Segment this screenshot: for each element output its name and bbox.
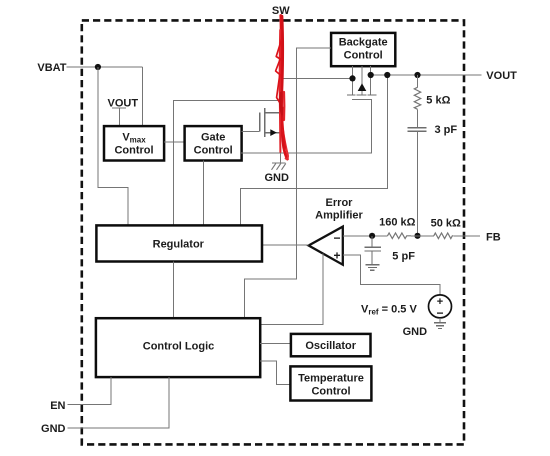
box Temperature Control — [290, 366, 371, 400]
box Regulator — [96, 225, 262, 261]
svg-text:−: − — [436, 306, 443, 320]
wire 3pF to FB divider — [417, 131, 419, 236]
box Control Logic — [96, 318, 260, 377]
wire EA to Control Logic — [260, 253, 323, 324]
svg-text:Error: Error — [326, 197, 354, 209]
wire VOUT sense to Regulator — [240, 75, 387, 225]
ground 5pF earth — [366, 265, 380, 271]
wire Gate Control bottom to Regulator — [203, 161, 205, 226]
ground NMOS (slash style) — [272, 163, 286, 170]
svg-text:+: + — [333, 249, 340, 263]
svg-text:EN: EN — [50, 400, 65, 412]
svg-text:GND: GND — [403, 326, 428, 338]
svg-text:Backgate: Backgate — [339, 37, 388, 49]
svg-text:Control Logic: Control Logic — [143, 340, 215, 352]
svg-text:Control: Control — [311, 386, 350, 398]
svg-text:3 pF: 3 pF — [435, 124, 458, 136]
wire SW net vertical — [280, 15, 282, 113]
node rail right junction — [368, 72, 374, 78]
svg-text:Control: Control — [114, 145, 153, 157]
svg-text:50 kΩ: 50 kΩ — [431, 218, 461, 230]
svg-text:Regulator: Regulator — [153, 238, 205, 250]
wire GND input — [67, 377, 169, 428]
wire Vmax to Gate Control — [164, 141, 185, 143]
box Gate Control — [185, 126, 242, 160]
box Oscillator — [291, 334, 371, 356]
resistor R2 160k — [388, 233, 412, 239]
node rail 5k junction — [414, 72, 420, 78]
svg-text:VOUT: VOUT — [486, 70, 517, 82]
box Backgate Control — [331, 33, 395, 66]
transistor Q2 backgate PMOS left stub — [352, 66, 354, 95]
svg-text:−: − — [333, 231, 340, 245]
svg-text:GND: GND — [41, 423, 66, 435]
transistor Q2 body stub — [361, 66, 363, 95]
wire VBAT to Regulator — [98, 67, 128, 225]
wire Backgate Control to Control Logic — [245, 48, 332, 318]
wire VBAT input — [67, 67, 143, 126]
wire EA plus input to Vref — [343, 255, 440, 295]
node FB divider junction — [414, 233, 420, 239]
svg-text:Control: Control — [194, 145, 233, 157]
wire divider to 50k — [411, 235, 434, 237]
wire Control Logic to Oscillator — [260, 343, 291, 345]
wire VOUT rail right segment — [371, 74, 482, 76]
capacitor C1 3pF — [408, 128, 427, 132]
wire Gate Control to NMOS gate — [242, 131, 260, 133]
svg-text:Oscillator: Oscillator — [305, 340, 356, 352]
wire EN input — [67, 377, 111, 405]
svg-text:Temperature: Temperature — [298, 372, 364, 384]
wire SW rail left segment — [281, 77, 353, 79]
label VOUT internal — [108, 97, 139, 126]
transistor Q1 source arrow — [270, 129, 277, 136]
svg-text:FB: FB — [486, 231, 501, 243]
transistor Q2 right stub — [370, 66, 372, 95]
svg-text:Control: Control — [344, 50, 383, 62]
svg-text:Gate: Gate — [201, 132, 225, 144]
node rail left junction — [349, 75, 355, 81]
svg-text:160 kΩ: 160 kΩ — [379, 216, 416, 228]
svg-text:VBAT: VBAT — [37, 62, 66, 74]
wire SW sense to Regulator — [174, 100, 281, 225]
svg-text:5 kΩ: 5 kΩ — [426, 95, 450, 107]
ground Vref earth — [434, 323, 446, 329]
resistor R1 5k — [414, 75, 420, 128]
wire 50k to FB pin — [453, 235, 480, 237]
op-amp U1 error amplifier — [309, 227, 343, 265]
resistor R3 50k — [434, 233, 454, 239]
box Vmax Control — [104, 126, 164, 160]
annotation red scribble over SW line — [276, 16, 288, 160]
wire EA minus input — [343, 235, 388, 237]
transistor Q2 channel plates — [347, 94, 377, 96]
source Vref — [429, 295, 452, 320]
wire NMOS source to ground — [280, 133, 282, 163]
transistor Q1 power NMOS — [260, 108, 281, 137]
wire Control Logic to Temperature Control — [260, 361, 290, 385]
wire Vref to ground — [439, 318, 441, 323]
svg-text:GND: GND — [264, 172, 289, 184]
wire EA output to Regulator — [262, 244, 309, 246]
wire PMOS gate line from Gate Control — [241, 100, 371, 154]
node rail sense junction — [384, 72, 390, 78]
IC boundary dashed frame — [82, 20, 464, 444]
capacitor C2 5pF — [365, 236, 381, 265]
diode body diode arrow — [358, 83, 367, 91]
node minus junction — [369, 233, 375, 239]
node VBAT junction — [95, 64, 101, 70]
svg-text:5 pF: 5 pF — [392, 251, 415, 263]
wire Regulator to Control Logic — [173, 262, 175, 319]
svg-text:Amplifier: Amplifier — [315, 209, 363, 221]
